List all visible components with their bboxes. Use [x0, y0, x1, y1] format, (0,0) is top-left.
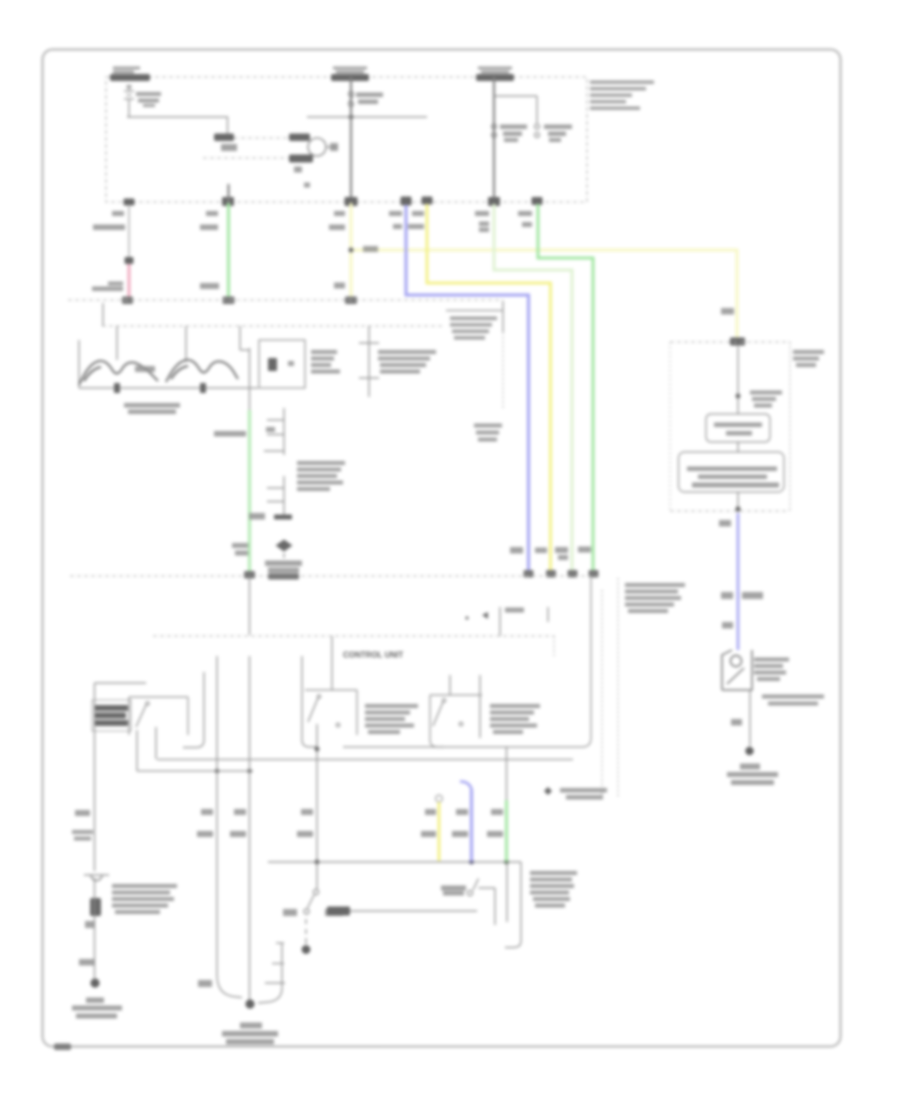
svg-text:CONTROL UNIT: CONTROL UNIT [343, 651, 403, 660]
